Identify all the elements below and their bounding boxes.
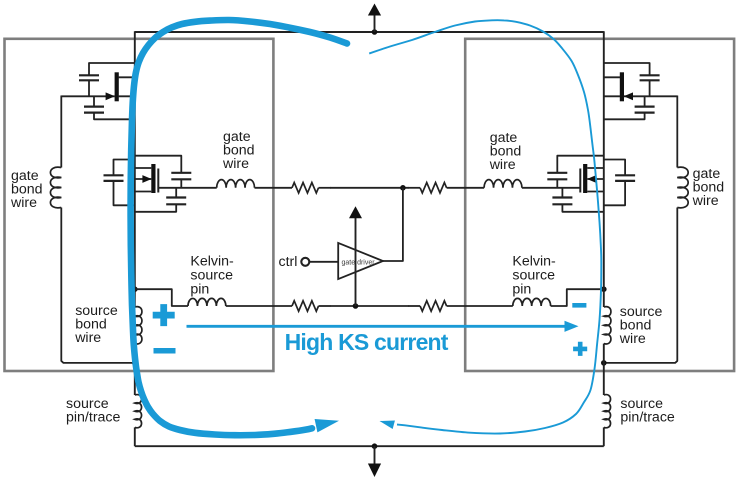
svg-text:wire: wire	[619, 331, 646, 347]
svg-text:wire: wire	[692, 193, 719, 209]
svg-text:pin: pin	[512, 282, 531, 298]
svg-text:pin/trace: pin/trace	[66, 409, 121, 425]
svg-text:High KS current: High KS current	[285, 329, 449, 355]
svg-text:pin/trace: pin/trace	[620, 409, 675, 425]
svg-text:gate driver: gate driver	[342, 259, 376, 266]
svg-text:wire: wire	[222, 156, 249, 172]
svg-text:wire: wire	[10, 195, 37, 211]
svg-text:wire: wire	[489, 157, 516, 173]
svg-text:wire: wire	[74, 330, 101, 346]
svg-text:ctrl: ctrl	[279, 254, 298, 270]
svg-text:pin: pin	[190, 282, 209, 298]
